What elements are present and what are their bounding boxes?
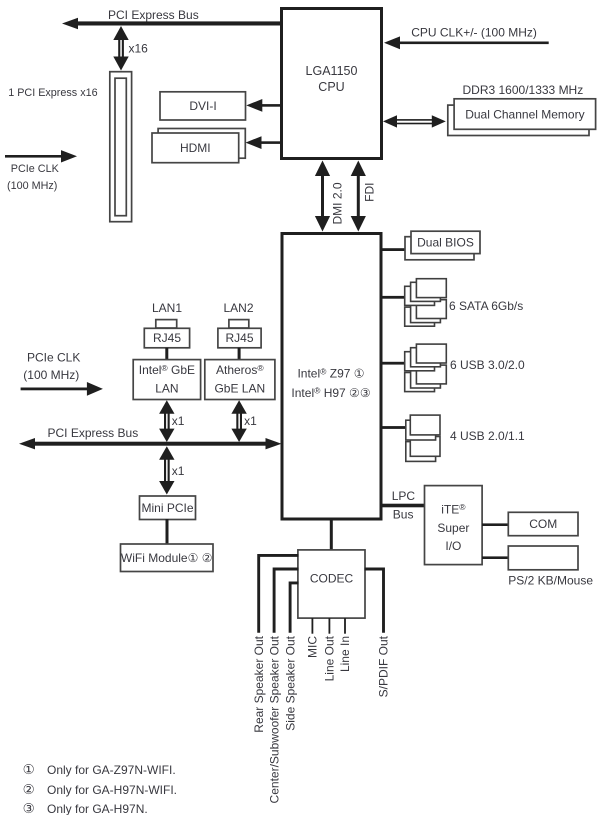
svg-text:RJ45: RJ45 bbox=[225, 331, 253, 345]
wire: PCH to SATA connectors bbox=[381, 296, 406, 299]
PCI Express x16 slot bbox=[110, 72, 132, 222]
svg-text:6 SATA 6Gb/s: 6 SATA 6Gb/s bbox=[449, 299, 523, 313]
label: LPC bbox=[392, 489, 416, 503]
svg-text:Line In: Line In bbox=[338, 636, 352, 672]
COM port bbox=[508, 512, 578, 535]
note 3: Only for GA-H97N bbox=[23, 801, 148, 815]
label: PCIe CLK (lower) bbox=[27, 351, 80, 365]
wire: Mini PCIe to WiFi module bbox=[166, 519, 169, 545]
memory: Dual Channel Memory bbox=[448, 99, 596, 136]
label: Center/Subwoofer Speaker Out bbox=[267, 635, 281, 803]
wire: CODEC to Side Speaker Out bbox=[290, 583, 298, 633]
svg-text:Line Out: Line Out bbox=[323, 635, 337, 681]
svg-text:CODEC: CODEC bbox=[310, 572, 354, 586]
svg-text:1 PCI Express x16: 1 PCI Express x16 bbox=[8, 87, 97, 99]
CPU LGA1150 bbox=[282, 9, 382, 159]
svg-text:PS/2 KB/Mouse: PS/2 KB/Mouse bbox=[508, 574, 593, 588]
label: x16 bbox=[129, 42, 149, 56]
wire: PCH to USB3 connectors bbox=[381, 362, 406, 365]
svg-text:(100 MHz): (100 MHz) bbox=[7, 180, 57, 192]
svg-text:RJ45: RJ45 bbox=[153, 331, 181, 345]
wire: CODEC to Line In bbox=[344, 618, 346, 634]
svg-text:Only for GA-Z97N-WIFI.: Only for GA-Z97N-WIFI. bbox=[47, 763, 176, 777]
svg-text:x1: x1 bbox=[172, 414, 185, 428]
wire: CODEC to MIC bbox=[312, 618, 314, 634]
svg-text:x1: x1 bbox=[172, 464, 185, 478]
svg-text:Side Speaker Out: Side Speaker Out bbox=[283, 635, 297, 730]
svg-text:6 USB 3.0/2.0: 6 USB 3.0/2.0 bbox=[450, 358, 525, 372]
wire: RJ45 LAN2 to Atheros LAN bbox=[238, 348, 241, 360]
wire: PCH to CODEC bbox=[330, 519, 333, 551]
svg-text:Dual BIOS: Dual BIOS bbox=[417, 236, 474, 250]
label: FDI bbox=[363, 183, 377, 202]
RJ45 jack LAN2 bbox=[218, 320, 261, 348]
svg-text:Super: Super bbox=[437, 521, 469, 535]
svg-text:GbE LAN: GbE LAN bbox=[214, 382, 265, 396]
svg-text:S/PDIF Out: S/PDIF Out bbox=[377, 635, 391, 697]
WiFi module bbox=[121, 544, 214, 572]
label: DMI 2.0 bbox=[331, 182, 345, 224]
svg-text:I/O: I/O bbox=[445, 539, 461, 553]
label: LAN2 bbox=[223, 301, 253, 315]
PCH chipset Intel Z97/H97 bbox=[282, 234, 381, 520]
label: x1 (LAN2) bbox=[244, 414, 257, 428]
arrow: x1 bus to Mini PCIe bbox=[159, 446, 174, 494]
svg-text:Center/Subwoofer Speaker Out: Center/Subwoofer Speaker Out bbox=[267, 635, 281, 803]
arrow: CPU CLK into CPU bbox=[384, 36, 549, 49]
svg-text:LAN: LAN bbox=[155, 382, 178, 396]
arrow: PCIe CLK (lower) bbox=[21, 382, 103, 396]
bus arrow x16 (CPU to PCIe slot) bbox=[113, 26, 128, 71]
label: 6 USB 3.0/2.0 bbox=[450, 358, 525, 372]
wire: PCH to USB2 connectors bbox=[381, 426, 407, 429]
label: 6 SATA 6Gb/s bbox=[449, 299, 523, 313]
label: PCIe CLK (upper) bbox=[11, 163, 60, 175]
svg-text:LGA1150: LGA1150 bbox=[306, 64, 358, 78]
svg-text:LAN2: LAN2 bbox=[223, 301, 253, 315]
svg-text:Intel® H97 ②③: Intel® H97 ②③ bbox=[291, 386, 370, 400]
label: PS/2 KB/Mouse bbox=[508, 574, 593, 588]
svg-text:LPC: LPC bbox=[392, 489, 416, 503]
wire: CODEC to S/PDIF Out bbox=[365, 569, 384, 633]
svg-text:Intel® GbE: Intel® GbE bbox=[139, 363, 195, 377]
arrow: FDI (CPU-PCH) bbox=[351, 161, 366, 232]
svg-text:Mini PCIe: Mini PCIe bbox=[141, 501, 193, 515]
wire: CODEC to Rear Speaker Out bbox=[259, 555, 299, 632]
arrow: CPU to memory (double line, both heads) bbox=[383, 115, 446, 127]
label: PCI Express Bus (lower) bbox=[48, 426, 139, 440]
Atheros GbE LAN chip bbox=[205, 360, 275, 400]
svg-text:CPU CLK+/- (100 MHz): CPU CLK+/- (100 MHz) bbox=[411, 25, 537, 39]
wire: iTE to COM bbox=[482, 523, 509, 526]
label: 4 USB 2.0/1.1 bbox=[450, 429, 525, 443]
Dual BIOS chip bbox=[405, 231, 480, 260]
svg-text:PCIe CLK: PCIe CLK bbox=[27, 351, 80, 365]
iTE Super I/O chip bbox=[425, 486, 483, 565]
svg-text:DDR3 1600/1333 MHz: DDR3 1600/1333 MHz bbox=[463, 83, 584, 97]
wire: RJ45 LAN1 to Intel LAN bbox=[165, 348, 168, 360]
svg-text:①: ① bbox=[23, 762, 35, 777]
svg-text:4 USB 2.0/1.1: 4 USB 2.0/1.1 bbox=[450, 429, 525, 443]
svg-text:HDMI: HDMI bbox=[180, 141, 211, 155]
wire: lower PCI Express bus bbox=[19, 438, 282, 449]
PS/2 port bbox=[508, 546, 578, 570]
label: S/PDIF Out bbox=[377, 635, 391, 697]
label: MIC bbox=[306, 636, 320, 658]
label: LAN1 bbox=[152, 301, 182, 315]
wire: upper PCI Express bus bbox=[62, 18, 282, 29]
svg-text:PCI Express Bus: PCI Express Bus bbox=[108, 8, 199, 22]
svg-text:MIC: MIC bbox=[306, 636, 320, 658]
label: DDR3 1600/1333 MHz bbox=[463, 83, 584, 97]
wire: iTE to PS/2 bbox=[482, 556, 509, 559]
SATA connectors stack bbox=[405, 279, 447, 327]
svg-text:Bus: Bus bbox=[393, 507, 414, 521]
RJ45 jack LAN1 bbox=[144, 320, 189, 348]
wire: CODEC to Line Out bbox=[329, 618, 331, 634]
CODEC chip bbox=[298, 550, 365, 618]
arrow: PCIe CLK (upper) bbox=[5, 150, 77, 162]
wire: PCH to Dual BIOS bbox=[381, 248, 407, 251]
arrow: x1 Intel LAN to bus bbox=[159, 400, 174, 442]
note 1: Only for GA-Z97N-WIFI bbox=[23, 762, 176, 777]
svg-text:WiFi Module① ②: WiFi Module① ② bbox=[121, 551, 213, 565]
label: Line In bbox=[338, 636, 352, 672]
svg-text:CPU: CPU bbox=[318, 80, 344, 94]
label: Side Speaker Out bbox=[283, 635, 297, 730]
svg-text:Intel® Z97 ①: Intel® Z97 ① bbox=[297, 366, 364, 380]
svg-text:x1: x1 bbox=[244, 414, 257, 428]
label: x1 (LAN1) bbox=[172, 414, 185, 428]
label: Rear Speaker Out bbox=[252, 635, 266, 732]
svg-text:(100 MHz): (100 MHz) bbox=[23, 368, 79, 382]
svg-text:DVI-I: DVI-I bbox=[189, 99, 216, 113]
svg-text:PCI Express Bus: PCI Express Bus bbox=[48, 426, 139, 440]
label: (100 MHz) (upper) bbox=[7, 180, 57, 192]
USB 2.0 connectors stack bbox=[406, 415, 440, 461]
label: PCI Express Bus (top) bbox=[108, 8, 199, 22]
HDMI port (stacked boxes) bbox=[152, 129, 245, 163]
svg-text:FDI: FDI bbox=[363, 183, 377, 202]
USB 3.0 connectors stack bbox=[405, 344, 447, 392]
svg-text:COM: COM bbox=[529, 517, 557, 531]
svg-text:LAN1: LAN1 bbox=[152, 301, 182, 315]
arrow: CPU to HDMI bbox=[246, 136, 282, 149]
svg-text:PCIe CLK: PCIe CLK bbox=[11, 163, 60, 175]
svg-text:DMI 2.0: DMI 2.0 bbox=[331, 182, 345, 224]
svg-text:Only for GA-H97N-WIFI.: Only for GA-H97N-WIFI. bbox=[47, 783, 177, 797]
svg-text:Atheros®: Atheros® bbox=[216, 363, 264, 377]
arrow: DMI 2.0 (CPU-PCH) bbox=[315, 161, 330, 232]
wire: LPC bus PCH to iTE bbox=[381, 504, 425, 508]
svg-text:③: ③ bbox=[23, 801, 35, 815]
Intel GbE LAN chip bbox=[133, 360, 200, 400]
svg-text:Rear Speaker Out: Rear Speaker Out bbox=[252, 635, 266, 732]
label: (100 MHz) (lower) bbox=[23, 368, 79, 382]
note 2: Only for GA-H97N-WIFI bbox=[23, 782, 177, 797]
label: Bus bbox=[393, 507, 414, 521]
label: CPU CLK+/- (100 MHz) bbox=[411, 25, 537, 39]
label: x1 (Mini PCIe) bbox=[172, 464, 185, 478]
svg-text:x16: x16 bbox=[129, 42, 149, 56]
wire: CODEC to Center/Subwoofer Speaker Out bbox=[274, 569, 298, 633]
svg-text:②: ② bbox=[23, 782, 35, 797]
label: Line Out bbox=[323, 635, 337, 681]
label: 1 PCI Express x16 bbox=[8, 87, 97, 99]
Mini PCIe slot bbox=[140, 496, 196, 520]
arrow: x1 Atheros LAN to bus bbox=[231, 400, 246, 442]
svg-text:Dual Channel Memory: Dual Channel Memory bbox=[465, 107, 584, 121]
arrow: CPU to DVI-I bbox=[246, 99, 281, 112]
svg-text:Only for GA-H97N.: Only for GA-H97N. bbox=[47, 802, 148, 815]
DVI-I port bbox=[160, 92, 246, 120]
